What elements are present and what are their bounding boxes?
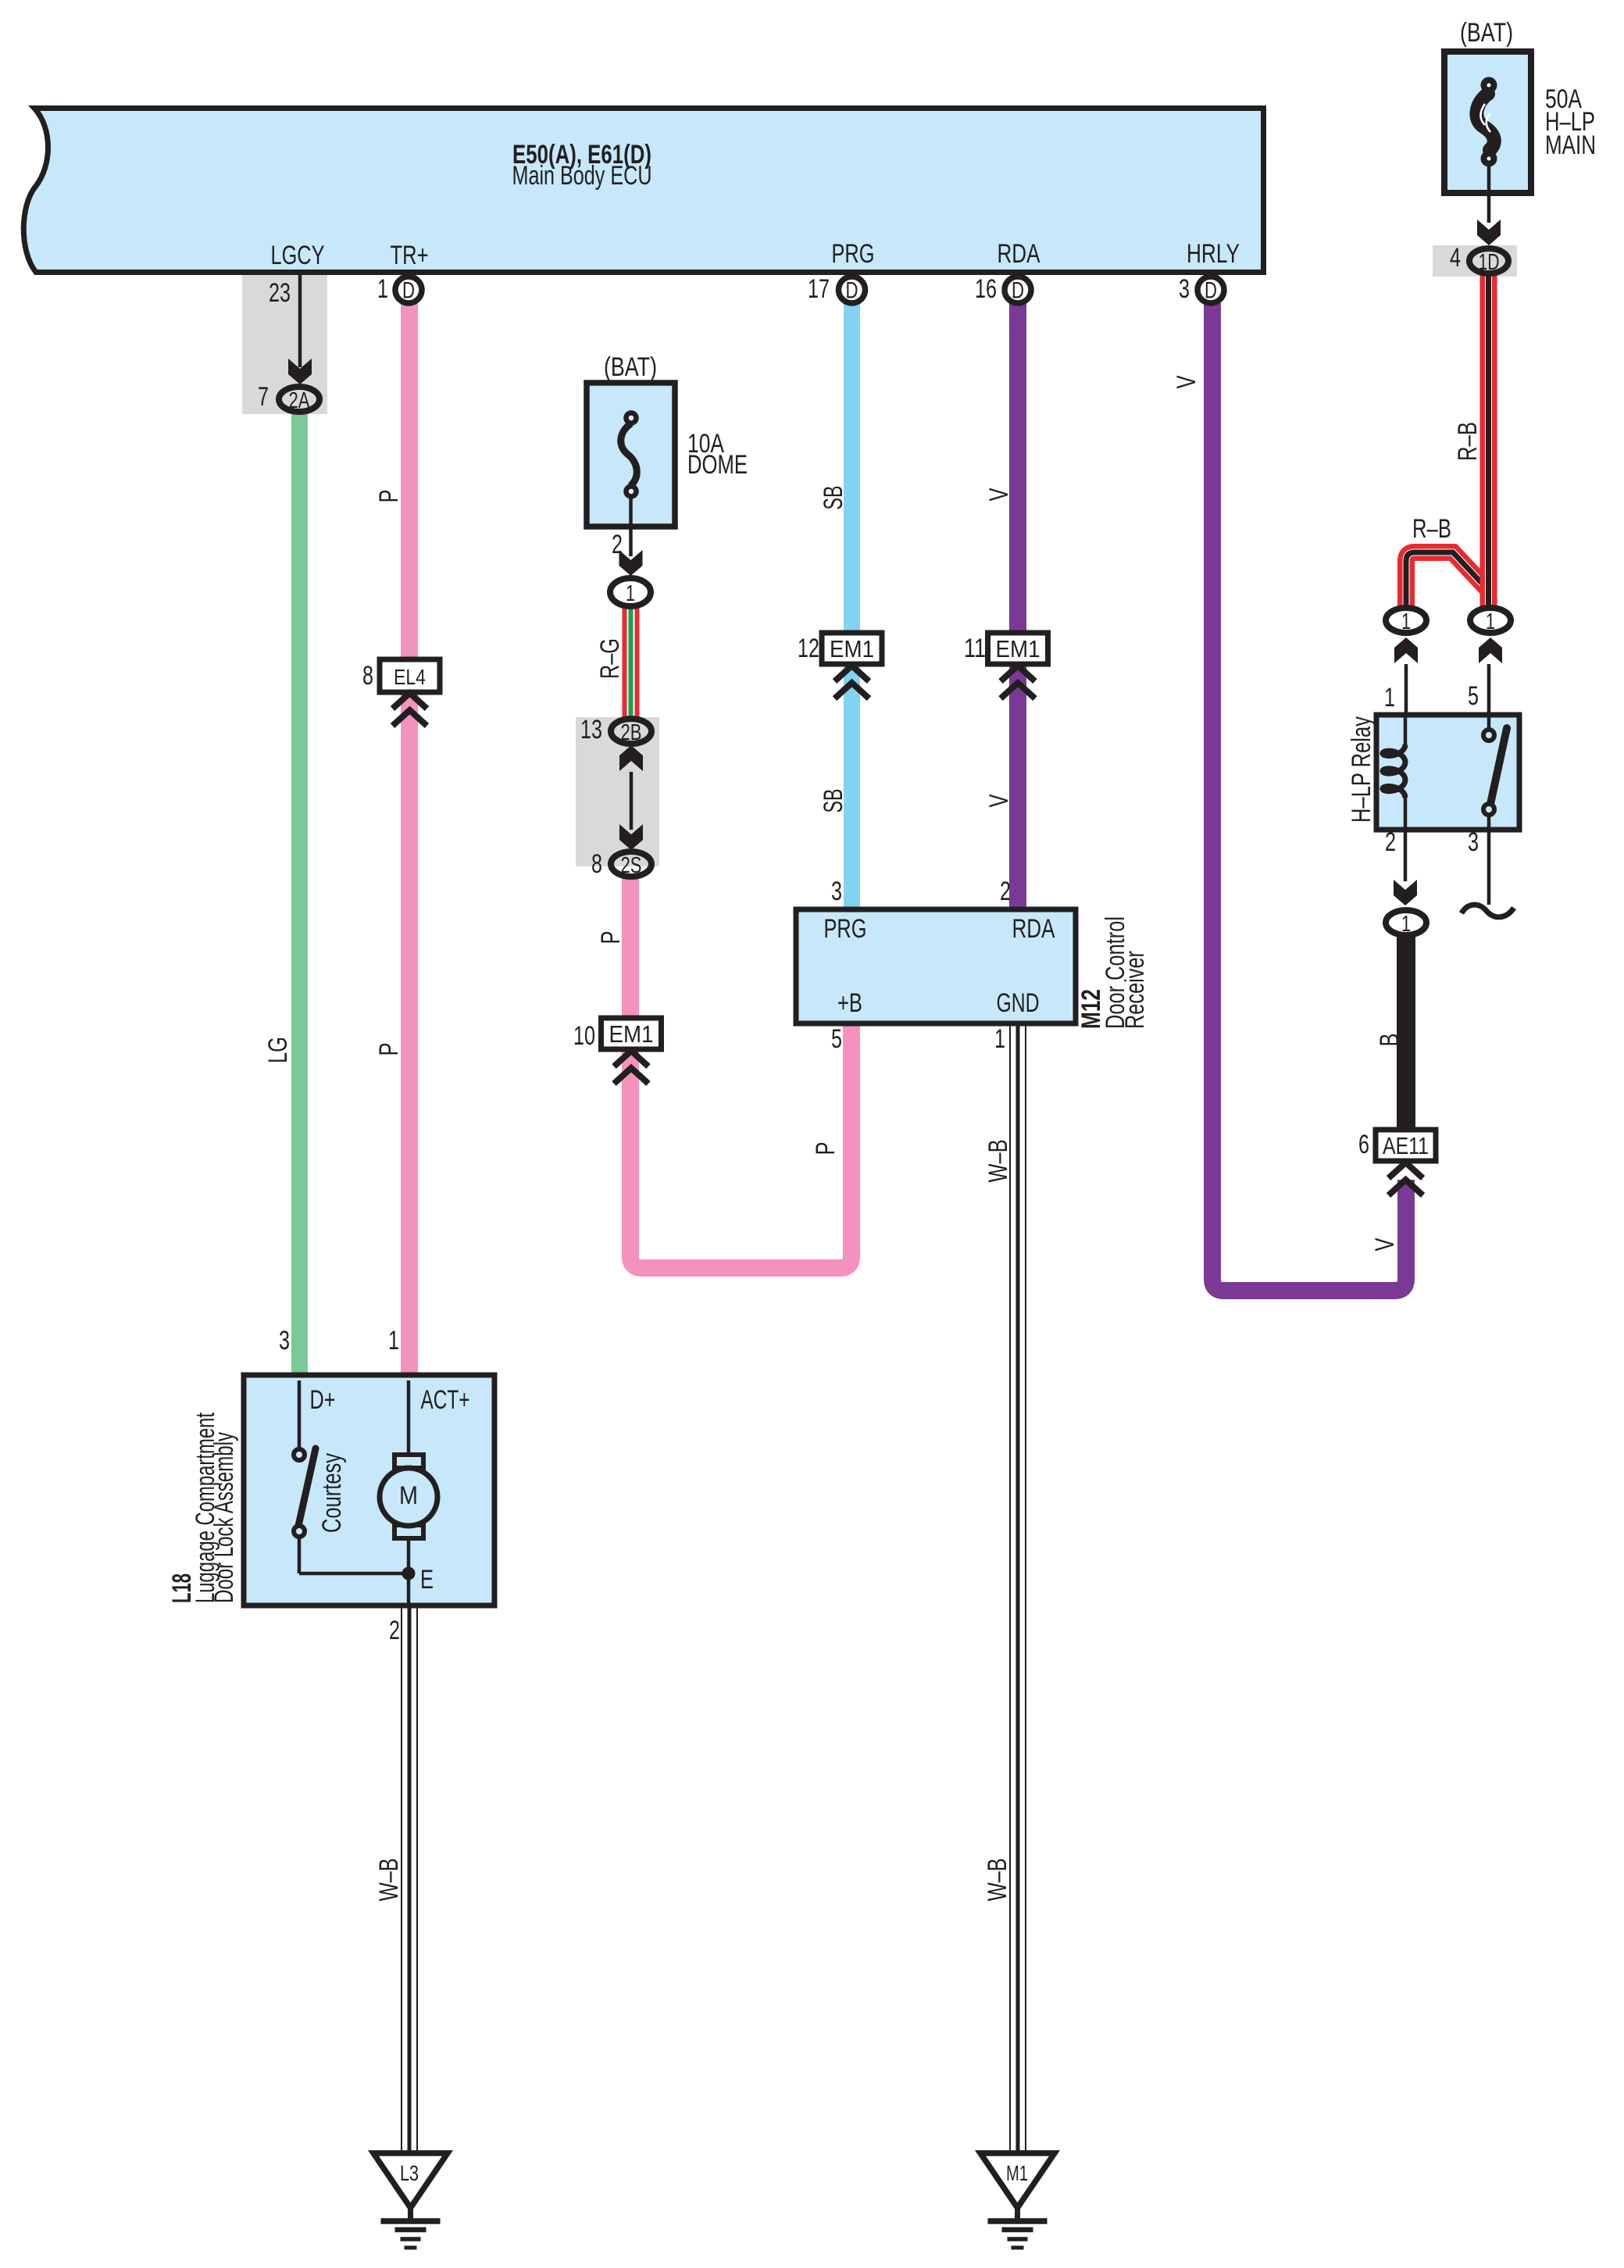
svg-text:D+: D+ (310, 1385, 336, 1415)
svg-text:(BAT): (BAT) (1460, 18, 1513, 48)
svg-text:13: 13 (580, 715, 602, 745)
svg-text:5: 5 (831, 1024, 842, 1054)
svg-text:2: 2 (1000, 877, 1011, 906)
svg-text:V: V (1172, 375, 1201, 388)
svg-text:1D: 1D (1479, 250, 1500, 275)
svg-text:LG: LG (263, 1037, 293, 1063)
svg-text:(BAT): (BAT) (604, 352, 657, 382)
svg-text:W–B: W–B (374, 1859, 404, 1902)
svg-text:SB: SB (819, 789, 848, 813)
svg-text:R–B: R–B (1412, 514, 1451, 544)
svg-text:17: 17 (808, 274, 830, 304)
svg-text:EL4: EL4 (394, 665, 426, 689)
svg-text:2: 2 (612, 530, 623, 559)
svg-text:MAIN: MAIN (1545, 130, 1596, 160)
svg-text:M1: M1 (1006, 2161, 1028, 2185)
svg-text:RDA: RDA (1012, 914, 1055, 944)
svg-text:V: V (984, 488, 1014, 501)
svg-text:PRG: PRG (824, 914, 867, 944)
svg-text:Courtesy: Courtesy (317, 1453, 347, 1533)
svg-text:12: 12 (798, 634, 819, 663)
svg-text:EM1: EM1 (609, 1020, 654, 1048)
svg-text:1: 1 (377, 274, 388, 304)
svg-text:HRLY: HRLY (1187, 239, 1240, 269)
svg-text:M: M (399, 1481, 418, 1509)
svg-text:W–B: W–B (983, 1859, 1012, 1902)
svg-text:2: 2 (1385, 827, 1396, 857)
svg-text:P: P (374, 490, 404, 503)
svg-text:Door Lock Assembly: Door Lock Assembly (209, 1432, 239, 1603)
svg-text:D: D (1205, 278, 1217, 304)
svg-text:1: 1 (1401, 912, 1411, 937)
svg-text:P: P (596, 931, 626, 945)
svg-text:3: 3 (831, 877, 842, 906)
svg-text:2: 2 (389, 1616, 400, 1645)
svg-text:E: E (420, 1565, 434, 1595)
svg-text:V: V (984, 794, 1014, 807)
svg-text:Main Body ECU: Main Body ECU (512, 161, 652, 191)
svg-text:3: 3 (1179, 274, 1190, 304)
svg-text:1: 1 (626, 581, 635, 606)
svg-text:1: 1 (1401, 609, 1411, 634)
svg-text:LGCY: LGCY (271, 241, 325, 270)
svg-text:H–LP Relay: H–LP Relay (1347, 716, 1376, 823)
svg-text:2A: 2A (289, 388, 310, 413)
svg-text:6: 6 (1358, 1130, 1369, 1159)
svg-text:23: 23 (269, 278, 291, 308)
svg-text:Receiver: Receiver (1120, 951, 1150, 1029)
svg-text:3: 3 (279, 1326, 290, 1355)
svg-text:1: 1 (994, 1024, 1005, 1054)
svg-text:DOME: DOME (687, 450, 748, 480)
svg-text:D: D (1012, 278, 1024, 304)
svg-text:1: 1 (388, 1326, 399, 1355)
svg-text:AE11: AE11 (1383, 1132, 1429, 1159)
svg-text:5: 5 (1468, 681, 1479, 711)
svg-text:V: V (1370, 1238, 1400, 1251)
svg-text:16: 16 (975, 274, 997, 304)
svg-text:R–G: R–G (595, 638, 625, 679)
svg-text:EM1: EM1 (996, 635, 1040, 663)
svg-text:10: 10 (573, 1021, 595, 1051)
svg-text:P: P (374, 1043, 404, 1056)
svg-text:1: 1 (1384, 683, 1395, 713)
svg-text:1: 1 (1486, 609, 1495, 634)
svg-text:3: 3 (1468, 827, 1479, 857)
svg-text:TR+: TR+ (391, 241, 429, 270)
svg-text:D: D (402, 278, 415, 304)
svg-text:D: D (846, 278, 858, 304)
svg-text:L3: L3 (400, 2161, 419, 2185)
svg-text:R–B: R–B (1453, 422, 1483, 461)
svg-text:8: 8 (362, 661, 373, 691)
svg-text:GND: GND (997, 988, 1040, 1018)
svg-text:+B: +B (837, 988, 862, 1018)
svg-text:RDA: RDA (998, 239, 1040, 269)
svg-text:2S: 2S (621, 853, 642, 878)
svg-text:EM1: EM1 (830, 635, 874, 663)
svg-text:B: B (1375, 1034, 1404, 1047)
svg-text:8: 8 (591, 849, 602, 879)
svg-text:11: 11 (964, 634, 986, 663)
svg-text:4: 4 (1450, 243, 1461, 273)
svg-text:PRG: PRG (832, 239, 875, 269)
svg-text:SB: SB (819, 486, 848, 510)
svg-text:W–B: W–B (983, 1140, 1013, 1183)
svg-text:P: P (811, 1142, 841, 1155)
svg-text:7: 7 (258, 382, 269, 412)
svg-text:ACT+: ACT+ (421, 1385, 470, 1415)
svg-text:2B: 2B (621, 720, 642, 745)
